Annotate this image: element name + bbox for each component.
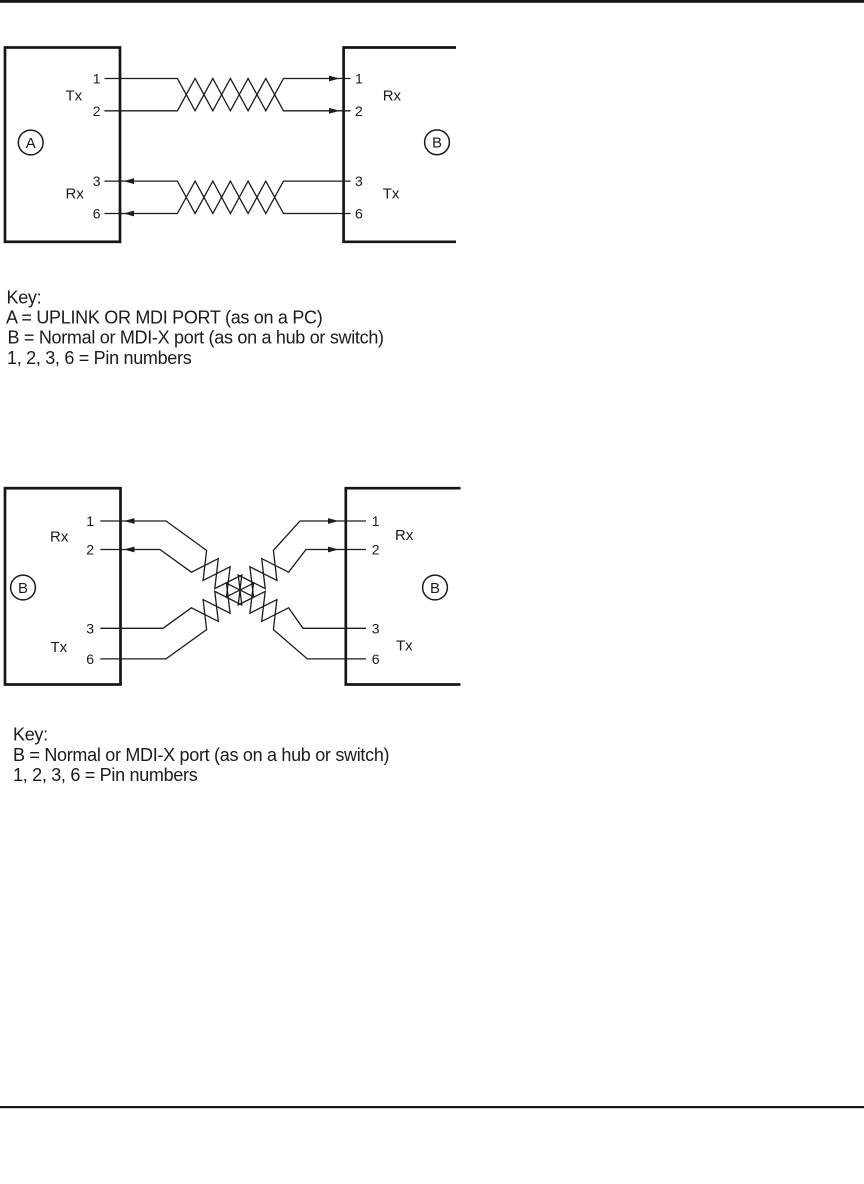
wire pin6 B-to-A twisted <box>105 181 351 213</box>
svg-text:Rx: Rx <box>66 186 85 203</box>
pin label 3 right box <box>372 620 380 636</box>
arrow into B pin1 <box>329 76 340 82</box>
svg-text:3: 3 <box>372 620 380 636</box>
Tx label right box <box>396 638 413 655</box>
svg-text:2: 2 <box>355 103 363 119</box>
circle B right <box>425 130 450 155</box>
svg-text:Tx: Tx <box>51 639 68 656</box>
crossover wire left pin2 to right pin6 <box>100 550 366 629</box>
svg-text:3: 3 <box>355 173 363 189</box>
pin label 1 box A <box>93 71 101 87</box>
wire pin2 A-to-B twisted <box>105 79 351 111</box>
crossover wire left pin6 to right pin2 <box>100 521 366 659</box>
svg-text:6: 6 <box>372 651 380 667</box>
svg-text:B: B <box>432 135 442 152</box>
pin label 3 box B <box>355 173 363 189</box>
pin label 1 box B <box>355 71 363 87</box>
pin label 1 right box <box>372 513 380 529</box>
svg-text:1: 1 <box>372 513 380 529</box>
crossover wire left pin1 to right pin3 <box>100 521 366 659</box>
crossover wire left pin3 to right pin1 <box>100 550 366 629</box>
arrow into B pin2 <box>329 108 340 114</box>
pin label 1 left box <box>86 513 94 529</box>
pin label 6 right box <box>372 651 380 667</box>
pin label 2 box B <box>355 103 363 119</box>
svg-text:B = Normal or MDI-X port (as o: B = Normal or MDI-X port (as on a hub or… <box>13 745 389 765</box>
Tx label left box <box>51 639 68 656</box>
svg-text:2: 2 <box>93 103 101 119</box>
svg-text:B: B <box>430 580 440 597</box>
pin label 2 right box <box>372 542 380 558</box>
bottom rule <box>0 1106 864 1108</box>
Tx label box B <box>383 186 400 203</box>
svg-text:1: 1 <box>93 71 101 87</box>
key block 1 <box>6 288 384 369</box>
arrow into left B pin1 <box>124 518 135 524</box>
svg-text:6: 6 <box>355 206 363 222</box>
svg-text:Rx: Rx <box>50 529 69 546</box>
svg-text:3: 3 <box>93 173 101 189</box>
svg-text:Key:: Key: <box>13 725 48 745</box>
Rx label box B <box>383 88 402 105</box>
key block 2 <box>13 725 389 786</box>
svg-text:A: A <box>26 135 36 152</box>
Tx label box A <box>66 88 83 105</box>
svg-text:3: 3 <box>86 620 94 636</box>
svg-text:Rx: Rx <box>395 527 414 544</box>
svg-text:1, 2, 3, 6 = Pin numbers: 1, 2, 3, 6 = Pin numbers <box>7 348 192 368</box>
wire pin3 B-to-A twisted <box>105 181 351 213</box>
pin label 2 left box <box>86 542 94 558</box>
svg-text:Key:: Key: <box>7 288 42 308</box>
box A outline <box>5 48 120 242</box>
left box B outline <box>5 488 121 684</box>
right box B outline (open right) <box>346 488 461 684</box>
arrow into A pin3 <box>124 178 135 184</box>
pin label 6 box B <box>355 206 363 222</box>
svg-text:6: 6 <box>86 651 94 667</box>
svg-text:1, 2, 3, 6 = Pin numbers: 1, 2, 3, 6 = Pin numbers <box>13 765 198 785</box>
arrow into left B pin2 <box>124 547 135 553</box>
top rule <box>0 0 864 3</box>
arrow into A pin6 <box>124 211 135 217</box>
svg-text:Tx: Tx <box>66 88 83 105</box>
Rx label left box <box>50 529 69 546</box>
svg-text:6: 6 <box>93 206 101 222</box>
wire pin1 A-to-B twisted <box>105 79 351 111</box>
svg-text:A = UPLINK OR MDI PORT (as on: A = UPLINK OR MDI PORT (as on a PC) <box>6 307 322 327</box>
arrow into right B pin1 <box>328 518 339 524</box>
arrow into right B pin2 <box>328 547 339 553</box>
svg-text:2: 2 <box>372 542 380 558</box>
pin label 3 box A <box>93 173 101 189</box>
pin label 6 box A <box>93 206 101 222</box>
pin label 3 left box <box>86 620 94 636</box>
circle B left <box>11 575 36 600</box>
Rx label right box <box>395 527 414 544</box>
pin label 6 left box <box>86 651 94 667</box>
svg-text:2: 2 <box>86 542 94 558</box>
svg-text:1: 1 <box>86 513 94 529</box>
Rx label box A <box>66 186 85 203</box>
pin label 2 box A <box>93 103 101 119</box>
svg-text:B = Normal or MDI-X port (as o: B = Normal or MDI-X port (as on a hub or… <box>8 327 384 347</box>
circle A <box>18 130 43 155</box>
svg-text:Rx: Rx <box>383 88 402 105</box>
svg-text:Tx: Tx <box>396 638 413 655</box>
svg-text:Tx: Tx <box>383 186 400 203</box>
svg-text:B: B <box>18 580 28 597</box>
circle B right <box>423 575 448 600</box>
svg-text:1: 1 <box>355 71 363 87</box>
box B outline (open right) <box>344 48 456 242</box>
